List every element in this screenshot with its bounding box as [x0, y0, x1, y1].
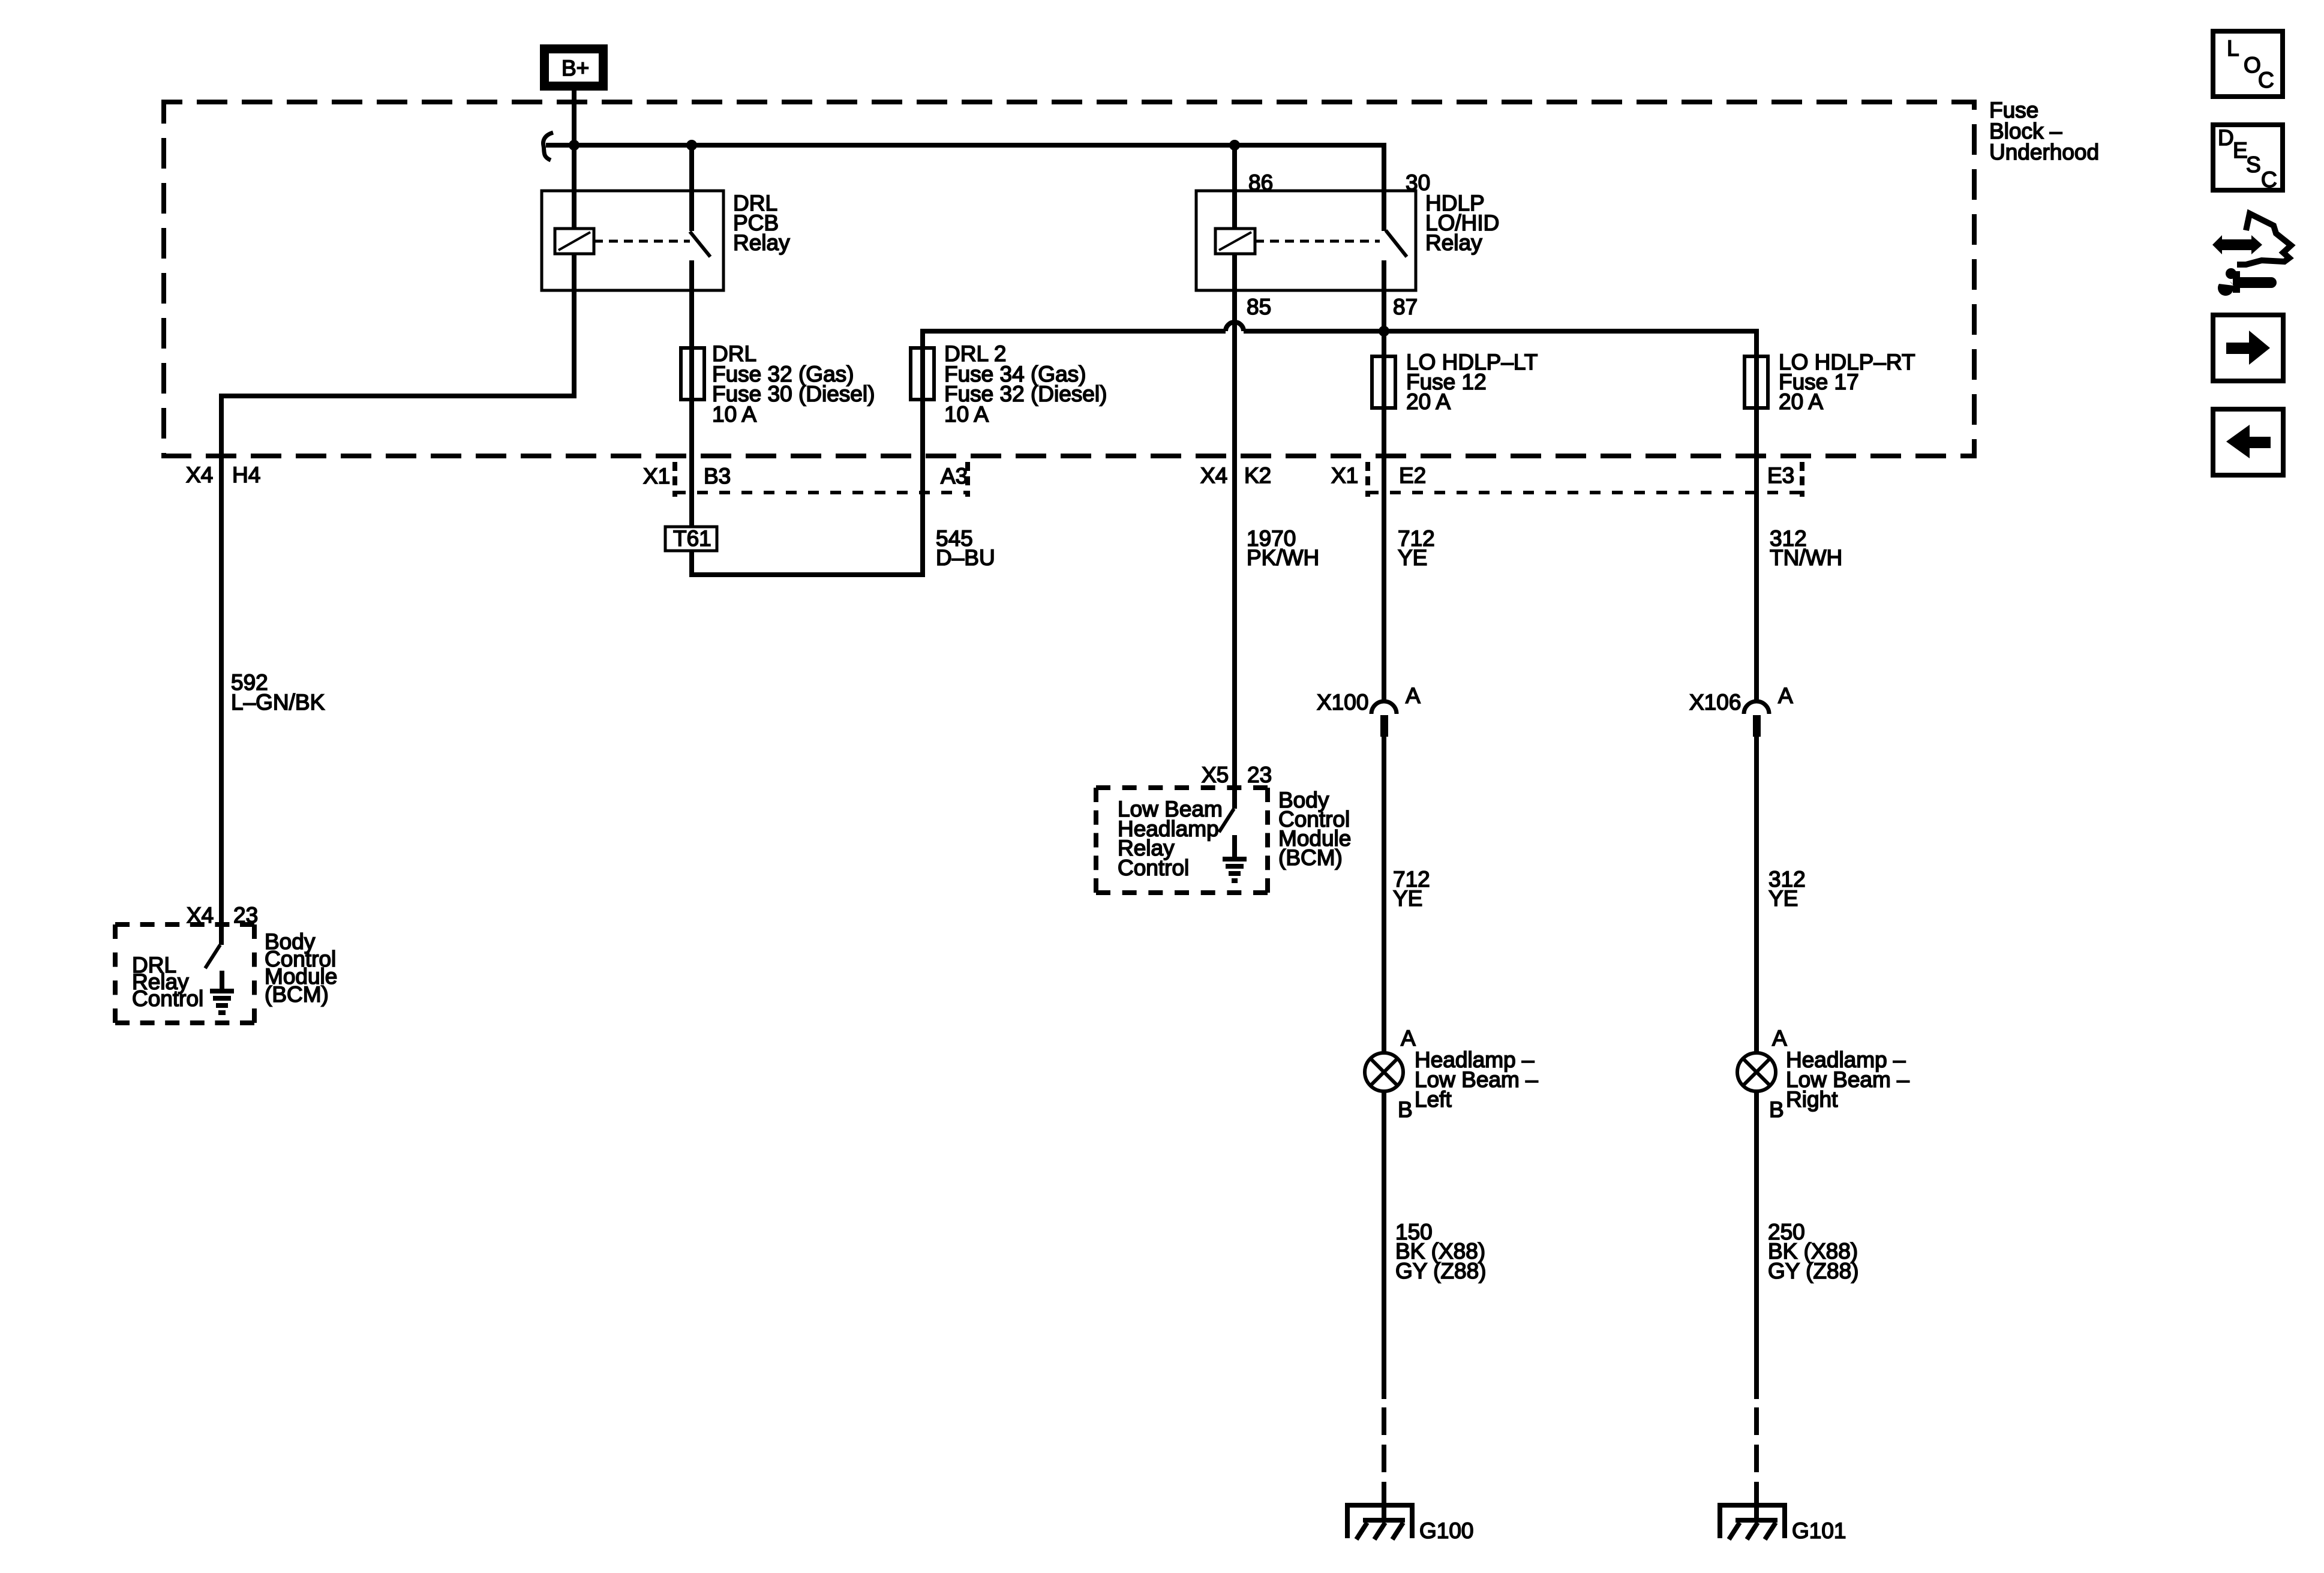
- svg-text:(BCM): (BCM): [1278, 845, 1343, 870]
- svg-text:Control: Control: [1118, 855, 1189, 880]
- svg-text:C: C: [2258, 68, 2274, 92]
- icon button LOC: [2213, 31, 2283, 97]
- wire DRL relay switch output to fuse and T61: [689, 260, 694, 577]
- svg-text:Relay: Relay: [1425, 230, 1482, 255]
- label wire 712 YE lower: [1393, 867, 1430, 911]
- svg-text:YE: YE: [1768, 886, 1798, 911]
- svg-text:D–BU: D–BU: [936, 545, 995, 570]
- switch blade in BCM mid: [1219, 809, 1234, 832]
- wire B+ feed vertical: [572, 91, 577, 145]
- svg-text:20 A: 20 A: [1406, 389, 1451, 414]
- svg-text:X5: X5: [1202, 763, 1229, 787]
- label wire 545 D-BU: [936, 526, 995, 570]
- label DRL PCB Relay: [733, 191, 790, 255]
- svg-text:B: B: [1769, 1097, 1784, 1122]
- fuse DRL Fuse 32: [681, 348, 704, 400]
- svg-text:PK/WH: PK/WH: [1247, 545, 1319, 570]
- svg-text:E: E: [2233, 138, 2248, 163]
- BCM DRL relay control dashed box: [115, 924, 254, 1023]
- svg-text:GY (Z88): GY (Z88): [1395, 1259, 1486, 1283]
- svg-text:B+: B+: [562, 56, 589, 80]
- fuse LO HDLP-LT Fuse 12: [1372, 356, 1395, 408]
- connector X100 inline: [1371, 701, 1397, 737]
- svg-text:Relay: Relay: [733, 230, 790, 255]
- svg-text:GY (Z88): GY (Z88): [1768, 1259, 1858, 1283]
- svg-text:87: 87: [1393, 295, 1418, 319]
- junction dot at B+ drop: [569, 140, 580, 151]
- ground symbol in BCM mid: [1223, 835, 1247, 881]
- svg-text:X106: X106: [1689, 690, 1741, 715]
- BCM low beam headlamp relay control dashed box: [1096, 788, 1268, 893]
- relay U1 coil: [555, 145, 594, 254]
- relay U1 DRL PCB relay box: [542, 191, 723, 290]
- svg-text:C: C: [2261, 167, 2277, 192]
- wire DRL relay switch pin feed: [689, 145, 694, 231]
- fuse LO HDLP-RT Fuse 17: [1744, 356, 1768, 408]
- lamp headlamp low beam right: [1737, 1053, 1776, 1091]
- label Low Beam Headlamp Relay Control: [1118, 797, 1223, 880]
- svg-text:D: D: [2218, 125, 2234, 150]
- wire bus corner down to HDLP relay pin 30: [1382, 143, 1386, 231]
- label DRL fuse: [712, 341, 875, 427]
- svg-text:L–GN/BK: L–GN/BK: [231, 690, 325, 715]
- svg-text:A3: A3: [941, 464, 968, 488]
- svg-text:S: S: [2246, 152, 2261, 177]
- icon schematic locator with wrench: [2212, 214, 2291, 296]
- label Headlamp Low Beam Right: [1786, 1047, 1909, 1112]
- junction dot at HDLP relay pin 86 feed: [1229, 140, 1240, 151]
- wire 250 lamp right to ground: [1754, 1091, 1759, 1399]
- wire 150 dashed section: [1382, 1407, 1386, 1520]
- label wire 1970 PK/WH: [1247, 526, 1319, 570]
- relay U2 switch blade: [1386, 230, 1407, 257]
- relay U1 coil-switch dashed link: [594, 240, 690, 243]
- svg-text:X100: X100: [1317, 690, 1368, 715]
- svg-text:Control: Control: [132, 986, 203, 1011]
- svg-text:X4: X4: [187, 903, 214, 927]
- B+ battery terminal box: [540, 44, 608, 91]
- svg-text:23: 23: [233, 903, 258, 927]
- svg-text:T61: T61: [673, 526, 711, 551]
- wire curl at bus left end: [544, 133, 553, 160]
- svg-text:H4: H4: [232, 463, 260, 487]
- svg-text:TN/WH: TN/WH: [1770, 545, 1842, 570]
- wire DRL2 fuse branch vertical: [920, 329, 925, 577]
- svg-text:30: 30: [1406, 170, 1430, 195]
- lamp headlamp low beam left: [1365, 1053, 1403, 1091]
- label DRL 2 fuse: [944, 341, 1107, 427]
- relay U2 coil-switch dashed link: [1255, 240, 1380, 243]
- wire RT branch down to RT fuse: [1754, 329, 1759, 702]
- connector strip X1 B3 A3: [675, 462, 968, 497]
- icon button DESC: [2213, 125, 2283, 192]
- relay U2 coil: [1215, 145, 1255, 254]
- svg-text:Right: Right: [1786, 1087, 1838, 1112]
- wire main bus horizontal: [546, 143, 1384, 148]
- svg-text:Underhood: Underhood: [1989, 140, 2099, 164]
- svg-text:E2: E2: [1399, 463, 1426, 488]
- svg-text:86: 86: [1248, 170, 1273, 195]
- wire 712 X100 to lamp: [1382, 737, 1386, 1053]
- connector X106 inline: [1744, 701, 1769, 737]
- label LO HDLP-LT fuse: [1406, 350, 1538, 414]
- svg-text:A: A: [1772, 1026, 1787, 1050]
- junction dot at DRL relay switch feed: [686, 140, 697, 151]
- fuse block underhood dashed box: [164, 102, 1974, 456]
- svg-text:85: 85: [1247, 295, 1271, 319]
- label wire 312 TN/WH: [1770, 526, 1842, 570]
- relay U1 switch blade: [690, 232, 710, 257]
- wire 312 X106 to lamp: [1754, 737, 1759, 1053]
- label DRL Relay Control: [132, 953, 203, 1011]
- svg-text:X1: X1: [1331, 463, 1358, 488]
- svg-text:A: A: [1401, 1026, 1416, 1050]
- label LO HDLP-RT fuse: [1779, 350, 1915, 414]
- wire 592 from DRL coil to BCM: [221, 254, 574, 945]
- label Fuse Block Underhood: [1989, 98, 2099, 164]
- label wire 250 BK GY: [1768, 1220, 1858, 1283]
- label Body Control Module BCM mid: [1278, 788, 1351, 870]
- svg-text:X4: X4: [1200, 463, 1227, 488]
- svg-text:B: B: [1398, 1097, 1413, 1122]
- relay U2 HDLP LO/HID relay box: [1196, 191, 1416, 290]
- svg-text:(BCM): (BCM): [265, 982, 329, 1007]
- icon button back arrow: [2213, 409, 2283, 475]
- svg-text:E3: E3: [1767, 463, 1794, 488]
- svg-text:Left: Left: [1415, 1087, 1452, 1112]
- fuse DRL 2 Fuse 34: [911, 348, 934, 400]
- svg-text:10 A: 10 A: [944, 402, 989, 427]
- svg-text:YE: YE: [1398, 545, 1427, 570]
- connector strip X1 E2 E3: [1368, 462, 1802, 497]
- wire pin 87 down through LT fuse to X100: [1382, 260, 1386, 702]
- ground G100: [1347, 1505, 1412, 1539]
- label Body Control Module BCM left: [265, 929, 337, 1007]
- label wire 312 YE lower: [1768, 867, 1806, 911]
- svg-text:L: L: [2227, 36, 2239, 61]
- ground G101: [1720, 1505, 1785, 1539]
- svg-text:10 A: 10 A: [712, 402, 756, 427]
- svg-text:A: A: [1406, 683, 1421, 708]
- label Headlamp Low Beam Left: [1415, 1047, 1538, 1112]
- T61 splice box: [665, 526, 717, 551]
- svg-text:G100: G100: [1419, 1518, 1474, 1543]
- wire bottom link T61 to DRL2: [689, 572, 925, 577]
- label wire 592 L-GN/BK: [231, 670, 325, 715]
- switch blade in BCM left: [205, 945, 220, 968]
- junction dot pin 87: [1379, 326, 1389, 337]
- ground symbol in BCM left: [210, 971, 234, 1013]
- svg-text:YE: YE: [1393, 886, 1422, 911]
- label HDLP LO/HID Relay: [1425, 191, 1499, 255]
- icon button forward arrow: [2213, 315, 2283, 381]
- wire 150 lamp left to ground: [1382, 1091, 1386, 1399]
- wire link y552 with hop over pin85: [920, 322, 1756, 331]
- svg-text:20 A: 20 A: [1779, 389, 1823, 414]
- svg-text:23: 23: [1247, 763, 1272, 787]
- svg-text:X1: X1: [643, 464, 670, 488]
- svg-text:K2: K2: [1244, 463, 1271, 488]
- wire 1970 pin 85 down to BCM: [1232, 254, 1237, 809]
- svg-text:X4: X4: [186, 463, 213, 487]
- wire 250 dashed section: [1754, 1407, 1759, 1520]
- svg-text:G101: G101: [1792, 1518, 1846, 1543]
- svg-text:A: A: [1778, 683, 1793, 708]
- svg-text:B3: B3: [704, 464, 731, 488]
- label wire 712 YE upper: [1398, 526, 1435, 570]
- label wire 150 BK GY: [1395, 1220, 1486, 1283]
